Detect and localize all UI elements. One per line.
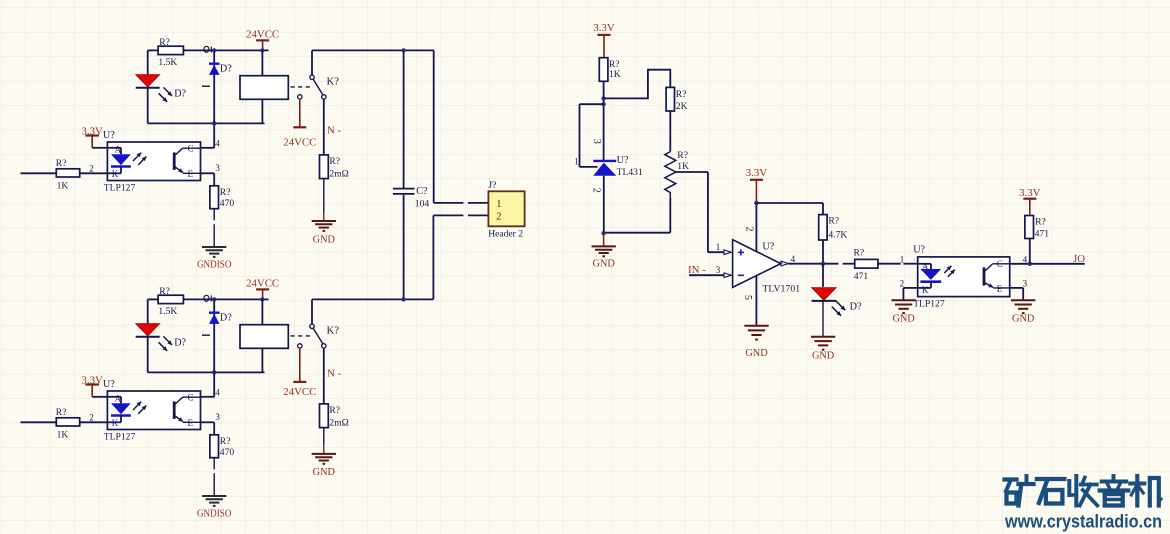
node junction (diode/opto pin4) (212, 121, 216, 125)
power 3.3V (TL431) (593, 22, 614, 58)
opto light arrows (133, 402, 146, 414)
node junction (diode/opto pin4) (212, 370, 216, 374)
ground GND (TL431) (592, 233, 616, 269)
svg-text:3.3V: 3.3V (746, 167, 767, 179)
svg-text:GND: GND (745, 348, 768, 359)
svg-text:24VCC: 24VCC (283, 386, 316, 398)
wire opto pin 3 to R?470 (201, 163, 221, 186)
svg-text:A: A (115, 394, 122, 404)
pin mark glyph (204, 46, 211, 52)
TL431 U? (shunt reference) (593, 155, 643, 233)
svg-text:K?: K? (327, 75, 340, 87)
opto LED (anode A / cathode K) (107, 145, 130, 179)
resistor R? 471 (output) (854, 248, 878, 282)
LED D? (red) (136, 75, 160, 124)
wire 3.3V to opto pin 1 (92, 147, 107, 149)
resistor R? 1.5K (158, 286, 183, 317)
node junction (pin 4) (1028, 262, 1032, 266)
svg-text:3: 3 (215, 163, 220, 173)
svg-text:GND: GND (313, 234, 336, 245)
wire R?471 to opto pin 1 (878, 254, 918, 264)
svg-text:A: A (115, 145, 122, 155)
svg-text:TLV1701: TLV1701 (762, 283, 800, 294)
TL431 pin 2 label (591, 188, 602, 193)
svg-text:24VCC: 24VCC (283, 137, 316, 149)
wire R? to opto pin 2 (80, 172, 108, 174)
svg-text:C: C (997, 259, 1003, 269)
svg-text:470: 470 (220, 198, 235, 209)
svg-text:1K: 1K (677, 161, 689, 172)
svg-text:1.5K: 1.5K (158, 306, 177, 317)
opto photo-transistor (right) (984, 259, 1010, 294)
wire R?470 to GNDISO (213, 209, 215, 247)
svg-text:GND: GND (1012, 313, 1035, 324)
svg-text:D?: D? (220, 63, 232, 74)
power 3.3V (82, 126, 103, 148)
wire 3.3V to opto pin 1 (92, 396, 107, 398)
wire R? to opto pin 2 (80, 421, 108, 423)
svg-text:C: C (188, 144, 194, 154)
resistor R? 470 (210, 186, 234, 209)
svg-text:K: K (112, 169, 119, 179)
svg-text:4: 4 (215, 387, 220, 397)
svg-text:D?: D? (174, 88, 186, 99)
svg-text:R?: R? (828, 215, 839, 226)
resistor R? 2K (666, 87, 687, 111)
svg-text:GND: GND (812, 350, 835, 361)
resistor R? 1K (input) (56, 407, 80, 441)
diode D? (blue, snubber) (202, 50, 232, 123)
connector J? Header 2 (488, 180, 524, 239)
node junction (diode top) (212, 297, 216, 301)
wire relay-loop bottom (148, 371, 265, 373)
svg-text:R?: R? (220, 436, 231, 447)
svg-text:471: 471 (1035, 229, 1050, 240)
power 3.3V (82, 375, 103, 397)
wire R?470 to GNDISO (213, 458, 215, 496)
svg-text:3.3V: 3.3V (593, 22, 614, 34)
wire cap branch (top) (403, 50, 405, 188)
svg-text:4: 4 (1023, 254, 1028, 264)
opto LED (anode A / cathode K) (107, 394, 130, 428)
svg-text:1: 1 (496, 199, 501, 210)
svg-text:E: E (997, 284, 1003, 294)
ground GNDISO (197, 496, 232, 519)
diode D? (blue, snubber) (202, 299, 232, 372)
resistor R? 1K (input) (56, 158, 80, 192)
svg-text:R?: R? (677, 150, 688, 161)
wire opto pin 3 to R?470 (201, 412, 221, 435)
wire R?471 to pin 4 node (1029, 239, 1031, 264)
comparator pin arrows and numbers (716, 242, 732, 277)
svg-text:TLP127: TLP127 (913, 298, 945, 309)
svg-text:2: 2 (744, 227, 755, 232)
svg-text:D?: D? (850, 301, 862, 312)
comparator power pins 2/5 (742, 203, 756, 326)
svg-text:1: 1 (716, 242, 721, 252)
svg-text:C: C (188, 393, 194, 403)
svg-text:3: 3 (716, 265, 721, 275)
svg-text:1K: 1K (609, 69, 621, 80)
LED D? light arrows and label (159, 87, 187, 102)
rheostat R? 1K (zigzag) (665, 150, 689, 198)
svg-text:TLP127: TLP127 (104, 431, 136, 442)
svg-text:1: 1 (574, 156, 579, 166)
wire switch to R? 2m (323, 99, 325, 155)
svg-text:1.5K: 1.5K (158, 57, 177, 68)
svg-text:3.3V: 3.3V (1019, 187, 1040, 199)
svg-text:2: 2 (89, 412, 94, 422)
svg-text:C?: C? (416, 186, 428, 197)
svg-text:2: 2 (591, 188, 602, 193)
svg-text:24VCC: 24VCC (246, 28, 279, 40)
net label JO (1073, 253, 1085, 265)
svg-text:D?: D? (220, 312, 232, 323)
wire relay-loop bottom (148, 122, 265, 124)
relay actuator dashed link (291, 335, 311, 337)
wire relay-loop top (183, 298, 268, 300)
relay coil K? body (240, 299, 288, 372)
LED D? (red) (136, 324, 160, 373)
wire relay-loop top (183, 49, 268, 51)
svg-text:2: 2 (496, 212, 501, 223)
node junction (24VCC/coil) (260, 297, 264, 301)
opto photo-transistor (C / E) (174, 144, 200, 179)
power 24VCC (switch common) (283, 348, 316, 398)
LED D? (red, output) (812, 288, 837, 301)
svg-text:GNDISO: GNDISO (197, 259, 232, 270)
svg-text:R?: R? (329, 156, 340, 167)
LED D? light arrows and label (159, 336, 187, 351)
opto light arrows (133, 153, 146, 165)
wire pot tap to comparator + (676, 172, 724, 252)
pin 2 label (89, 412, 94, 422)
ground GND (opto pin 2) (891, 300, 915, 324)
svg-text:1K: 1K (57, 181, 69, 192)
svg-text:U?: U? (617, 155, 629, 166)
svg-text:GND: GND (593, 259, 616, 270)
ground GNDISO (197, 247, 232, 270)
svg-text:3: 3 (1023, 279, 1028, 289)
wire R?2m to GND (323, 179, 325, 221)
svg-text:TLP127: TLP127 (104, 182, 136, 193)
svg-text:K?: K? (327, 324, 340, 336)
svg-text:R?: R? (159, 37, 170, 48)
wire comparator output (788, 263, 854, 265)
node junction (GND rail) (601, 231, 605, 235)
power 3.3V (comparator) (746, 167, 767, 203)
svg-text:4.7K: 4.7K (828, 230, 847, 241)
resistor R? 4.7K (819, 215, 848, 241)
power 24VCC (relay) (246, 28, 279, 50)
svg-text:R?: R? (56, 158, 67, 169)
wire R?2m to GND (323, 428, 325, 454)
TL431 ref loop wire (pin 1) (574, 104, 603, 167)
svg-text:N -: N - (327, 368, 341, 380)
power 24VCC (switch common) (283, 99, 316, 148)
switch K? (298, 50, 340, 99)
svg-text:GND: GND (313, 467, 336, 478)
svg-text:TL431: TL431 (617, 167, 643, 178)
relay coil K? body (240, 50, 288, 123)
LED D? light arrows and label (832, 301, 862, 316)
svg-text:470: 470 (220, 447, 235, 458)
svg-text:24VCC: 24VCC (246, 277, 279, 289)
wire opto pin 4 output (1010, 254, 1085, 264)
svg-text:U?: U? (762, 242, 774, 253)
wire R?2K to R?1K pot (669, 111, 671, 152)
svg-text:1K: 1K (57, 430, 69, 441)
capacitor C? 104 (393, 186, 429, 209)
svg-text:2K: 2K (676, 101, 688, 112)
svg-text:E: E (188, 418, 194, 428)
svg-text:471: 471 (854, 271, 869, 282)
node junction (24VCC/coil) (260, 48, 264, 52)
wire R?1.5K left to LED branch (148, 299, 158, 323)
watermark logo text (1005, 476, 1162, 506)
opto LED (right) (918, 262, 942, 295)
net label N- (327, 368, 341, 380)
svg-text:U?: U? (103, 130, 115, 141)
ground GND (LED) (811, 337, 835, 362)
svg-text:1: 1 (900, 254, 905, 264)
node junction (cap bottom) (401, 297, 405, 301)
TL431 pin 3 label (591, 139, 602, 144)
svg-text:A: A (922, 262, 929, 272)
svg-text:R?: R? (1035, 217, 1046, 228)
svg-text:D?: D? (174, 337, 186, 348)
resistor R? 1K (pullup) (599, 58, 620, 82)
power 3.3V (right opto) (1019, 187, 1040, 216)
relay actuator dashed link (291, 86, 311, 88)
wire input net (21, 172, 57, 174)
opto-coupler U? TLP127 body (right) (913, 245, 1010, 310)
wire switch to bus (312, 298, 433, 300)
wire switch to R? 2m (323, 348, 325, 404)
comparator output arrow and pin 4 (781, 254, 796, 266)
svg-text:2: 2 (89, 163, 94, 173)
wire opto pin 2 to GND (900, 279, 918, 301)
ground GND (comparator pin 5) (744, 326, 768, 359)
wire opto pin 4 riser (201, 372, 221, 397)
resistor R? 471 (pullup) (1025, 216, 1049, 240)
svg-text:GNDISO: GNDISO (197, 508, 232, 519)
svg-text:R?: R? (220, 187, 231, 198)
svg-text:J?: J? (488, 180, 496, 191)
wire LED to GND (822, 301, 824, 337)
svg-text:U?: U? (913, 245, 925, 256)
wire cap branch (bottom) (403, 195, 405, 300)
opto-coupler U? TLP127 body (103, 379, 201, 442)
svg-text:104: 104 (415, 199, 430, 210)
node junction (diode top) (212, 48, 216, 52)
svg-text:R?: R? (159, 286, 170, 297)
svg-text:U?: U? (103, 379, 115, 390)
switch K? (298, 299, 340, 348)
node junction (output) (821, 262, 825, 266)
svg-text:E: E (188, 169, 194, 179)
op-amp U? TLV1701 (733, 240, 801, 295)
pin mark glyph (204, 295, 211, 301)
wire R?4.7K to output node (822, 240, 824, 264)
svg-text:2mΩ: 2mΩ (329, 169, 348, 180)
wire junction to R?2K (604, 70, 671, 99)
opto-coupler U? TLP127 body (103, 130, 201, 193)
wire pot bottom to GND rail (604, 198, 671, 233)
resistor R? 2mOhm (320, 404, 349, 429)
svg-text:www.crystalradio.cn: www.crystalradio.cn (1004, 511, 1162, 532)
svg-text:3: 3 (591, 139, 602, 144)
node junction (cap top) (401, 48, 405, 52)
wire bus to header pin 1 (434, 50, 489, 203)
resistor R? 2mOhm (320, 155, 349, 180)
svg-text:R?: R? (56, 407, 67, 418)
node junction x2 (601, 96, 605, 106)
svg-text:Header 2: Header 2 (488, 229, 523, 240)
watermark url text (1004, 511, 1162, 532)
wire switch to bus (312, 49, 434, 51)
wire R?1.5K left to LED branch (148, 50, 158, 74)
wire opto pin 3 to GND (1010, 279, 1028, 301)
svg-text:2mΩ: 2mΩ (329, 418, 348, 429)
svg-text:R?: R? (676, 89, 687, 100)
opto light arrows (right) (944, 266, 955, 277)
svg-text:2: 2 (900, 279, 905, 289)
resistor R? 1.5K (158, 37, 183, 68)
svg-text:K: K (922, 285, 929, 295)
wire 3.3V to R?4.7K (756, 203, 823, 215)
pin 2 label (89, 163, 94, 173)
svg-text:JO: JO (1073, 253, 1085, 265)
svg-text:3: 3 (215, 412, 220, 422)
net label N- (327, 125, 341, 137)
resistor R? 470 (210, 435, 234, 458)
power 24VCC (relay) (246, 277, 279, 299)
node junction (3.3V) (754, 201, 758, 205)
ground GND (shunt) (312, 454, 336, 478)
svg-text:4: 4 (791, 254, 796, 264)
opto photo-transistor (C / E) (174, 393, 200, 428)
net label IN- (688, 264, 706, 276)
svg-text:R?: R? (854, 248, 865, 259)
ground GND (opto pin 3) (1011, 300, 1035, 324)
svg-text:N -: N - (327, 125, 341, 137)
svg-text:5: 5 (742, 295, 753, 300)
svg-text:4: 4 (215, 138, 220, 148)
wire opto pin 4 riser (201, 123, 221, 148)
ground GND (shunt) (312, 221, 336, 245)
wire output node to LED (822, 264, 824, 287)
wire bus to header pin 2 (433, 215, 488, 299)
svg-text:GND: GND (892, 313, 915, 324)
wire IN- to comparator pin 3 (689, 274, 724, 276)
svg-text:R?: R? (329, 405, 340, 416)
svg-text:K: K (112, 418, 119, 428)
wire input net (21, 421, 57, 423)
wire R?1K to TL431 (603, 81, 605, 160)
